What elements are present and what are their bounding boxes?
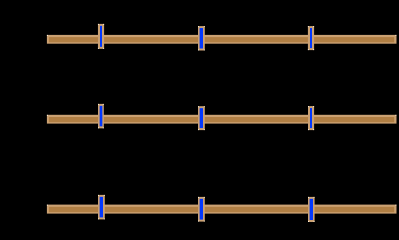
number line 1 bar	[47, 35, 397, 44]
number line 3 tick B	[198, 197, 205, 222]
number line 3 tick A	[98, 195, 105, 220]
number line 2 tick A	[98, 104, 104, 128]
number line 2 tick B	[198, 106, 205, 130]
number line 2 tick C	[308, 106, 314, 130]
number line 1 tick A	[98, 24, 104, 49]
number line 3 bar	[47, 205, 397, 214]
number line 3 tick C	[308, 197, 315, 222]
number line 2 bar	[47, 115, 397, 124]
number line 1 tick B	[198, 26, 205, 50]
number line 1 tick C	[308, 26, 314, 50]
